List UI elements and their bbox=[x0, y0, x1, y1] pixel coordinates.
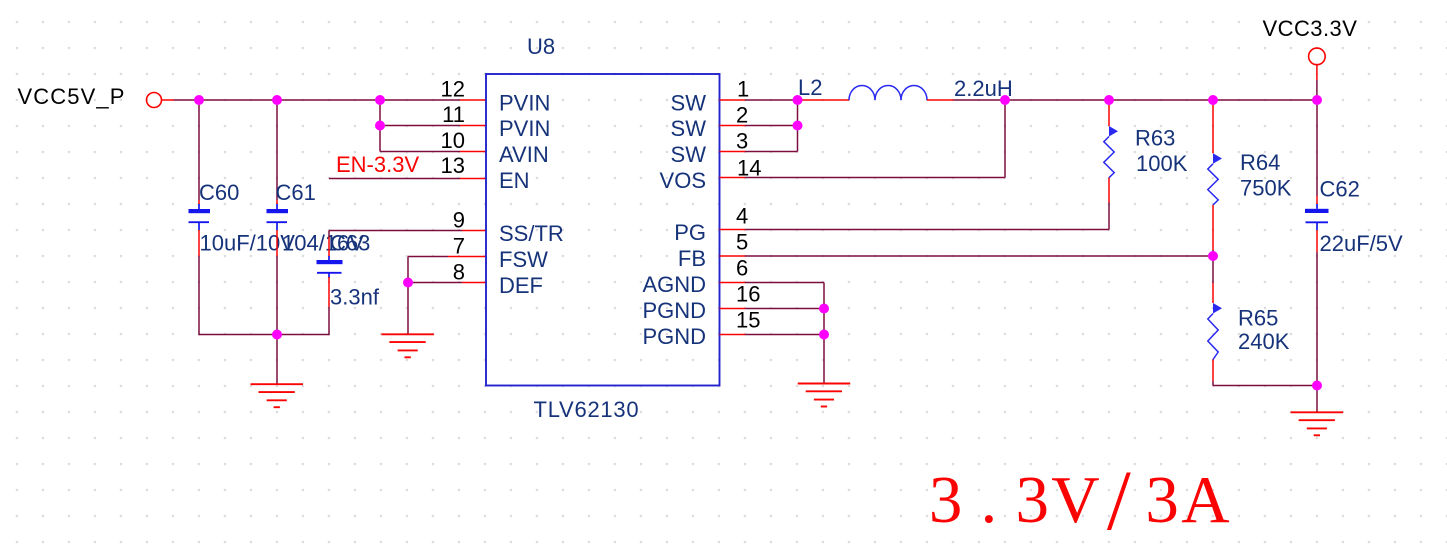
pin 15 stub bbox=[720, 334, 746, 336]
junction at C61 top bbox=[272, 95, 282, 105]
svg-text:12: 12 bbox=[441, 77, 465, 102]
pin 13 stub bbox=[460, 178, 486, 180]
ground symbol 1 bbox=[251, 384, 304, 407]
resistor R64 bbox=[1208, 103, 1222, 256]
junction FSW/DEF bbox=[403, 278, 413, 288]
wire to ground 4 bbox=[1316, 386, 1318, 413]
wire bottom cap bus bbox=[199, 334, 329, 336]
pin 8 stub bbox=[462, 282, 486, 284]
wire PG net bbox=[745, 229, 1109, 231]
svg-text:6: 6 bbox=[736, 256, 748, 281]
wire C60 upper bbox=[198, 100, 200, 205]
svg-text:FB: FB bbox=[678, 246, 706, 271]
inductor L2 lead left bbox=[798, 99, 850, 101]
svg-text:PVIN: PVIN bbox=[499, 116, 550, 141]
svg-text:15: 15 bbox=[736, 308, 760, 333]
pin 14 stub bbox=[720, 177, 746, 179]
wire pin 10 bbox=[380, 151, 460, 153]
capacitor C62 bbox=[1305, 204, 1329, 230]
svg-text:C61: C61 bbox=[276, 180, 316, 205]
svg-text:10uF/10V: 10uF/10V bbox=[200, 231, 296, 256]
svg-text:PVIN: PVIN bbox=[499, 91, 550, 116]
inductor L2 bbox=[849, 86, 927, 101]
junction at C60 top bbox=[194, 95, 204, 105]
pin 12 stub bbox=[460, 99, 486, 101]
power terminal VCC5V_P bbox=[147, 93, 162, 108]
wire pin 11 bbox=[380, 125, 460, 127]
svg-text:11: 11 bbox=[442, 102, 465, 127]
wire output bus bbox=[954, 99, 1318, 101]
svg-text:8: 8 bbox=[453, 260, 465, 285]
inductor L2 lead right bbox=[927, 99, 954, 101]
svg-text:AGND: AGND bbox=[642, 272, 706, 297]
wire SW2 bbox=[745, 125, 798, 127]
junction pin12/11 branch bbox=[375, 95, 385, 105]
svg-text:3: 3 bbox=[736, 129, 748, 154]
resistor R63 bbox=[1104, 103, 1118, 230]
power terminal VCC3.3V bbox=[1309, 48, 1326, 65]
wire EN net bbox=[329, 178, 460, 180]
wire DEF net bbox=[408, 282, 462, 284]
svg-text:TLV62130: TLV62130 bbox=[534, 397, 640, 422]
junction pin11 row bbox=[375, 121, 385, 131]
wire FSW net bbox=[408, 256, 448, 258]
svg-text:U8: U8 bbox=[527, 34, 555, 59]
svg-text:10: 10 bbox=[441, 128, 465, 153]
svg-text:PGND: PGND bbox=[642, 324, 706, 349]
svg-text:R63: R63 bbox=[1135, 125, 1175, 150]
svg-text:VCC5V_P: VCC5V_P bbox=[18, 84, 126, 109]
pin 1 stub bbox=[720, 99, 746, 101]
pin 10 stub bbox=[460, 151, 486, 153]
junction VCC3.3V/C62 bbox=[1312, 95, 1322, 105]
junction FB/R64/R65 bbox=[1208, 251, 1218, 261]
svg-text:4: 4 bbox=[736, 204, 748, 229]
svg-text:240K: 240K bbox=[1238, 329, 1290, 354]
pin 9 stub bbox=[462, 230, 486, 232]
svg-text:R65: R65 bbox=[1238, 305, 1278, 330]
svg-text:C63: C63 bbox=[330, 231, 370, 256]
pin 7 stub bbox=[448, 256, 486, 258]
pin 6 stub bbox=[720, 282, 746, 284]
wire SW1 bbox=[745, 99, 798, 101]
wire FB net bbox=[745, 255, 1213, 257]
junction R64 top bbox=[1208, 95, 1218, 105]
svg-text:C60: C60 bbox=[199, 180, 239, 205]
wire C62 upper bbox=[1316, 100, 1318, 204]
junction VOS tap bbox=[1000, 95, 1010, 105]
wire FSW vertical bbox=[407, 257, 409, 283]
svg-text:EN: EN bbox=[499, 168, 530, 193]
wire C63 lower bbox=[328, 277, 330, 335]
svg-text:FSW: FSW bbox=[499, 247, 548, 272]
svg-text:SS/TR: SS/TR bbox=[499, 221, 564, 246]
svg-text:2: 2 bbox=[736, 103, 748, 128]
svg-text:100K: 100K bbox=[1136, 151, 1188, 176]
capacitor C61 bbox=[267, 204, 289, 230]
svg-text:VOS: VOS bbox=[660, 168, 706, 193]
svg-text:C62: C62 bbox=[1320, 176, 1360, 201]
junction SW2 bbox=[793, 121, 803, 131]
wire AGND net bbox=[745, 283, 824, 384]
pin 16 stub bbox=[720, 308, 746, 310]
svg-text:EN-3.3V: EN-3.3V bbox=[336, 152, 419, 177]
wire SW vertical bbox=[797, 100, 799, 152]
wire C62 lower bbox=[1316, 230, 1318, 386]
junction PGND15 bbox=[819, 330, 829, 340]
svg-text:SW: SW bbox=[671, 91, 707, 116]
wire to ground 1 bbox=[276, 335, 278, 385]
svg-text:SW: SW bbox=[671, 142, 707, 167]
wire C60 lower bbox=[198, 230, 200, 335]
junction SW1 bbox=[793, 95, 803, 105]
wire C63 upper bbox=[328, 231, 330, 257]
svg-text:9: 9 bbox=[453, 208, 465, 233]
ground symbol 3 bbox=[798, 384, 851, 407]
pin 4 stub bbox=[720, 229, 746, 231]
pin 5 stub bbox=[720, 255, 746, 257]
svg-text:7: 7 bbox=[453, 234, 465, 259]
svg-text:PG: PG bbox=[674, 220, 706, 245]
svg-text:AVIN: AVIN bbox=[499, 142, 549, 167]
junction C62 bottom bbox=[1312, 381, 1322, 391]
wire R65 to ground bbox=[1213, 385, 1317, 387]
wire VCC3.3V lead bbox=[1316, 64, 1318, 100]
wire VOS net bbox=[745, 100, 1005, 178]
svg-text:5: 5 bbox=[736, 230, 748, 255]
svg-text:13: 13 bbox=[441, 153, 465, 178]
wire PGND15 net bbox=[745, 334, 824, 336]
svg-text:SW: SW bbox=[671, 116, 707, 141]
wire main input bus bbox=[174, 99, 460, 101]
ground symbol 4 bbox=[1291, 412, 1344, 435]
ground symbol 2 bbox=[381, 334, 434, 357]
wire SS/TR net bbox=[329, 230, 462, 232]
junction cap bus bbox=[272, 330, 282, 340]
wire pins 11/10 branch vertical bbox=[379, 100, 381, 152]
svg-text:R64: R64 bbox=[1240, 150, 1280, 175]
capacitor C63 bbox=[317, 256, 343, 278]
wire SW3 bbox=[745, 151, 798, 153]
wire C61 upper bbox=[276, 100, 278, 205]
svg-text:VCC3.3V: VCC3.3V bbox=[1263, 16, 1358, 41]
junction PGND16 bbox=[819, 304, 829, 314]
wire to ground 2 bbox=[407, 283, 409, 335]
wire PGND16 net bbox=[745, 308, 824, 310]
junction R63 top bbox=[1104, 95, 1114, 105]
pin 2 stub bbox=[720, 125, 746, 127]
svg-text:16: 16 bbox=[736, 282, 760, 307]
resistor R65 bbox=[1208, 256, 1222, 386]
wire C61 lower bbox=[276, 230, 278, 335]
svg-text:DEF: DEF bbox=[499, 273, 543, 298]
svg-text:1: 1 bbox=[737, 77, 749, 102]
svg-text:3.3nf: 3.3nf bbox=[330, 285, 380, 310]
pin 3 stub bbox=[720, 151, 746, 153]
op-amp U8 body TLV62130 bbox=[486, 74, 720, 386]
capacitor C60 bbox=[189, 204, 211, 230]
wire terminal lead bbox=[162, 99, 175, 101]
svg-text:PGND: PGND bbox=[642, 298, 706, 323]
svg-text:22uF/5V: 22uF/5V bbox=[1320, 231, 1403, 256]
svg-text:L2: L2 bbox=[798, 75, 822, 100]
svg-text:750K: 750K bbox=[1240, 175, 1292, 200]
pin 11 stub bbox=[460, 125, 486, 127]
